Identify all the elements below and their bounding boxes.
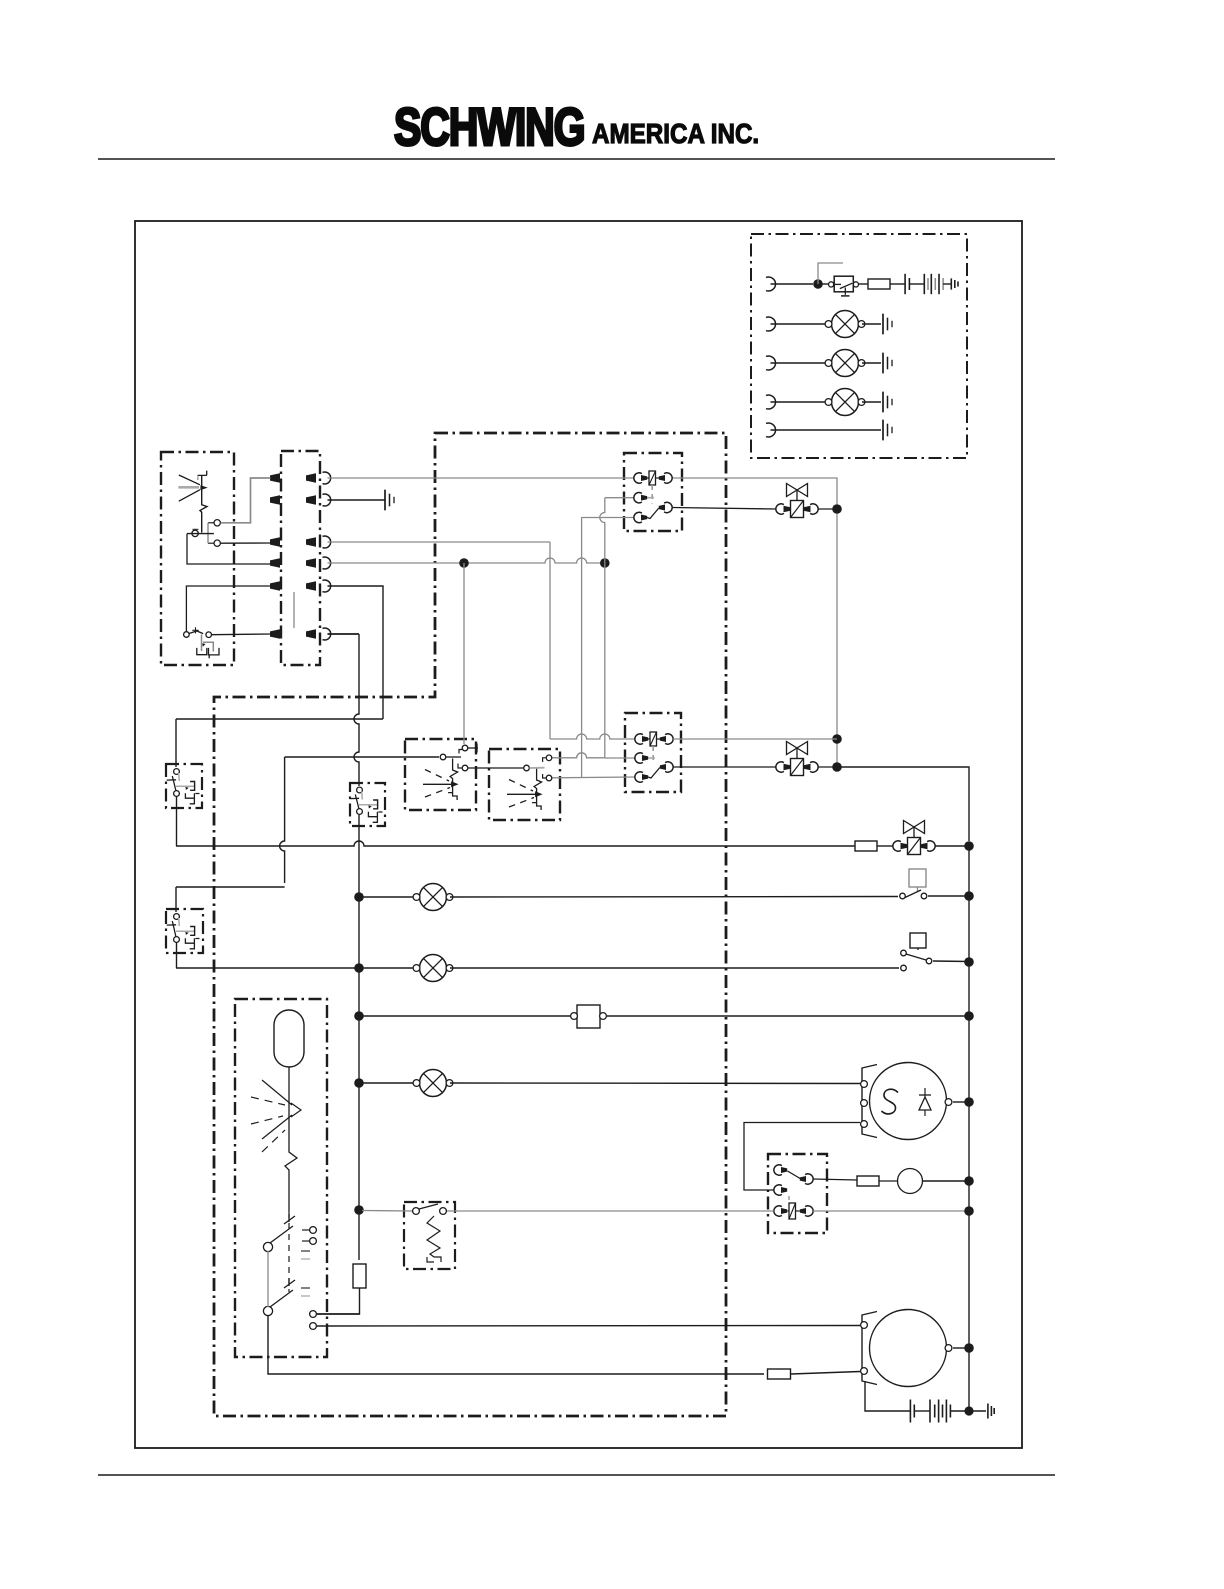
svg-text:SCHWING: SCHWING [394, 98, 584, 157]
svg-text:AMERICA INC.: AMERICA INC. [592, 117, 759, 149]
